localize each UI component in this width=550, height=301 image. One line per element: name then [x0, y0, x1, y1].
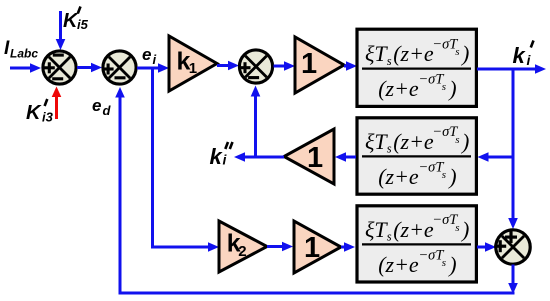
- svg-text:s: s: [387, 230, 392, 244]
- wire amp1b output to k_i'': [234, 152, 284, 162]
- svg-text:e: e: [92, 96, 101, 115]
- gain triangle 1 (bottom): [294, 221, 341, 273]
- svg-text:(z+e: (z+e: [393, 217, 434, 242]
- summing junction S3: [239, 50, 272, 83]
- wire amp1a to block B1: [344, 61, 357, 71]
- svg-text:i3: i3: [42, 110, 54, 125]
- wire B3 to S4: [477, 242, 496, 252]
- summing junction S1: [43, 51, 76, 84]
- svg-text:s: s: [387, 54, 392, 68]
- svg-text:(z+e: (z+e: [378, 76, 419, 101]
- wire S2 to K1 with branch: [137, 63, 169, 73]
- node label e_i: [142, 45, 157, 67]
- svg-text:): ): [460, 217, 469, 242]
- gain triangle K2: [219, 221, 267, 272]
- wire K_i3 input arrow (bottom, red): [52, 87, 62, 120]
- svg-text:): ): [447, 76, 456, 101]
- svg-text:−σT: −σT: [418, 159, 444, 175]
- gain triangle 1 (top): [295, 37, 344, 93]
- wire input I_Labc arrow: [10, 63, 41, 73]
- wire branch into B2: [478, 152, 514, 162]
- svg-text:s: s: [442, 169, 446, 181]
- svg-text:ξT: ξT: [365, 41, 388, 66]
- summing junction S2: [103, 51, 137, 84]
- svg-text:e: e: [142, 45, 151, 64]
- svg-text:−σT: −σT: [418, 72, 444, 88]
- svg-text:(z+e: (z+e: [393, 129, 434, 154]
- svg-text:(z+e: (z+e: [393, 41, 434, 66]
- wire S4 output down: [508, 265, 518, 295]
- wire amp1c to block B3: [341, 242, 355, 252]
- wire K2 to amp1c: [267, 242, 293, 252]
- wire bottom bus to e_d: [115, 87, 514, 293]
- svg-text:2: 2: [238, 243, 246, 260]
- svg-text:s: s: [387, 142, 392, 156]
- svg-text:i: i: [153, 52, 157, 67]
- svg-text:s: s: [455, 46, 459, 58]
- summing junction S4: [494, 230, 530, 264]
- wire B2 to amp1b: [335, 152, 356, 162]
- transfer block B2: [357, 118, 476, 194]
- svg-text:): ): [447, 164, 456, 189]
- svg-text:): ): [460, 41, 469, 66]
- svg-text:(z+e: (z+e: [378, 164, 419, 189]
- gain triangle 1 (feedback, points left): [284, 129, 334, 184]
- wire S1 to S2: [77, 63, 102, 73]
- svg-text:1: 1: [307, 142, 323, 174]
- svg-text:): ): [447, 252, 456, 277]
- svg-text:i5: i5: [77, 17, 89, 32]
- node label e_d: [92, 96, 112, 118]
- svg-text:s: s: [442, 257, 446, 269]
- transfer block B3: [357, 206, 476, 282]
- svg-text:s: s: [455, 222, 459, 234]
- node label K'_i5: [63, 7, 89, 33]
- wire K_i5 input arrow (top): [56, 11, 66, 50]
- svg-text:k: k: [513, 43, 527, 68]
- wire B1 output k_i': [477, 64, 546, 74]
- svg-text:d: d: [103, 103, 112, 118]
- svg-text:1: 1: [301, 48, 317, 80]
- svg-text:−σT: −σT: [418, 247, 444, 263]
- node label K'_i3: [26, 99, 54, 125]
- svg-text:K: K: [26, 102, 42, 124]
- wire K1 to S3: [217, 61, 239, 71]
- wire right branch down to S4: [508, 69, 518, 229]
- node label k_i'': [210, 142, 233, 169]
- svg-text:s: s: [455, 134, 459, 146]
- gain triangle K1: [169, 36, 217, 91]
- wire feedback branch up to S3: [251, 86, 261, 158]
- svg-text:s: s: [442, 81, 446, 93]
- wire S3 to amp1a: [274, 61, 296, 71]
- svg-text:ξT: ξT: [365, 129, 388, 154]
- svg-text:1: 1: [189, 60, 197, 77]
- node label I_Labc: [4, 38, 38, 61]
- svg-text:1: 1: [304, 232, 320, 264]
- transfer block B1: [357, 29, 476, 106]
- svg-text:Labc: Labc: [10, 47, 38, 61]
- svg-text:ξT: ξT: [365, 217, 388, 242]
- svg-text:): ): [460, 129, 469, 154]
- node label k_i': [513, 41, 534, 69]
- svg-text:k: k: [210, 144, 224, 169]
- svg-text:(z+e: (z+e: [378, 252, 419, 277]
- wire e_i branch down to K2: [153, 68, 220, 252]
